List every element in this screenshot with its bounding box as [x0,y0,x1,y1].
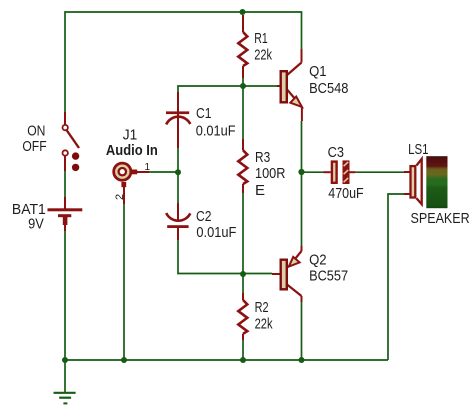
svg-text:Q2: Q2 [309,251,327,268]
svg-text:2: 2 [114,194,126,200]
svg-text:22k: 22k [254,46,272,63]
svg-text:C3: C3 [328,144,344,161]
svg-text:22k: 22k [255,315,273,332]
svg-text:BC557: BC557 [309,268,348,285]
svg-text:100R: 100R [255,165,286,182]
svg-text:Audio In: Audio In [106,142,158,159]
svg-text:9V: 9V [28,216,44,233]
svg-text:J1: J1 [123,126,138,143]
svg-text:R3: R3 [255,149,270,166]
svg-text:SPEAKER: SPEAKER [411,210,470,227]
svg-text:1: 1 [145,162,151,173]
svg-text:C1: C1 [196,105,212,122]
svg-text:R2: R2 [255,299,269,316]
svg-text:LS1: LS1 [408,141,429,158]
svg-text:OFF: OFF [22,138,46,155]
svg-text:R1: R1 [254,30,268,47]
svg-text:0.01uF: 0.01uF [196,123,236,140]
svg-text:Q1: Q1 [309,63,327,80]
svg-text:470uF: 470uF [328,185,363,202]
svg-text:0.01uF: 0.01uF [196,224,236,241]
svg-text:BC548: BC548 [309,80,348,97]
svg-text:C2: C2 [196,208,212,225]
svg-text:E: E [255,182,265,199]
svg-text:ON: ON [27,122,45,139]
